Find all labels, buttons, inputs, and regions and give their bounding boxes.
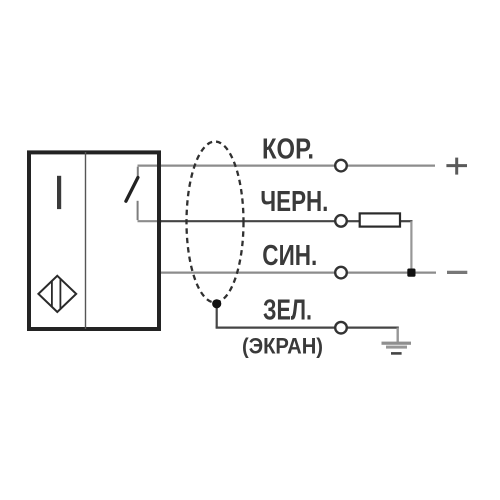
switch contact bottom terminal stub (137, 201, 139, 220)
ground symbol bar 2 (386, 346, 407, 349)
switch contact top terminal stub (137, 167, 139, 177)
wire ЗЕЛ vertical from shield dot (216, 304, 218, 328)
terminal circle КОР (335, 160, 347, 172)
sensor body box (29, 152, 159, 329)
junction dot on СИН wire (407, 269, 415, 277)
ground symbol bar 1 (382, 342, 412, 345)
ground symbol bar 3 (391, 352, 402, 355)
ground stub vertical (397, 328, 399, 342)
wire vertical drop from resistor to СИН junction (410, 221, 412, 272)
terminal circle ЧЕРН (335, 215, 347, 227)
svg-text:ЗЕЛ.: ЗЕЛ. (263, 295, 312, 327)
svg-text:КОР.: КОР. (262, 133, 314, 165)
wire ЗЕЛ horizontal to terminal (216, 327, 335, 329)
svg-text:ЧЕРН.: ЧЕРН. (260, 186, 328, 218)
wire ЗЕЛ terminal to ground (347, 327, 399, 329)
wire link resistor R to corner (400, 220, 413, 222)
diamond inner line left (51, 281, 53, 308)
plus sign (446, 158, 467, 175)
minus sign (447, 271, 467, 274)
wire СИН (blue) horizontal (160, 272, 436, 274)
resistor (load) (360, 213, 400, 226)
switch lever (NO contact) (126, 178, 138, 202)
wire КОР (brown) horizontal (138, 165, 436, 167)
sensor box divider (85, 152, 87, 329)
cable shield dashed ellipse (187, 142, 244, 303)
wire link terminal to resistor R (347, 220, 360, 222)
diamond inner line right (59, 279, 61, 309)
terminal circle СИН (335, 267, 347, 279)
sensing element diamond (38, 276, 76, 312)
wire stub ЧЕРН inside sensor box (138, 220, 163, 222)
indicator bar I (57, 176, 61, 209)
svg-text:СИН.: СИН. (262, 240, 317, 272)
svg-text:(ЭКРАН): (ЭКРАН) (242, 334, 323, 359)
wire ЧЕРН (black) horizontal from box to terminal (160, 220, 335, 222)
terminal circle ЗЕЛ (335, 322, 347, 334)
shield junction dot (212, 299, 221, 308)
